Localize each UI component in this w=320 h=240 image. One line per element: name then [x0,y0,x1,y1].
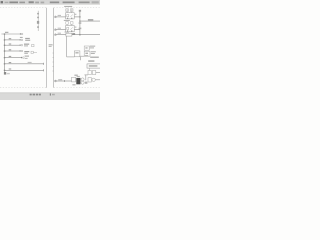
wire D2 right [96,72,100,74]
label C1 [90,46,95,47]
wire code labels above branches [5,32,11,70]
ECU box [87,64,101,68]
label branch 3 [24,44,29,45]
relay K1 label above [64,6,72,7]
wire label K2 [58,28,61,29]
node dot junction bus B [79,34,80,35]
wire branch 5 [5,57,22,59]
connector circle node 2 [54,29,56,31]
connector symbol branch 5 [21,57,24,59]
pin label K1 [75,14,77,15]
wire B2 right stub [80,55,85,57]
motor circle M [92,78,95,81]
wire stub branch 4 [34,51,38,53]
wire power bus [4,34,6,72]
fuse stub wires K1 [66,12,68,13]
label branch 4 [24,51,29,52]
circle G3 [81,78,84,81]
junction dot bus B top wire [79,21,80,22]
window background [0,0,100,100]
pin label K2 [75,27,77,28]
connector pair D1 [88,71,91,75]
connector pair D2 [92,71,95,75]
label above branch 6 [28,62,32,63]
box G1 in cluster [72,77,76,82]
ground label at bus bottom [4,72,6,75]
mark below cluster [72,84,75,85]
pin tick branch 6 [43,63,45,65]
status bar [0,93,100,100]
sheet bottom border (dashed) [54,87,100,89]
label on top right wire [88,19,93,20]
glyph branch 4 [31,51,33,53]
wire branch 7 long [5,69,44,71]
sheet bottom border (dashed) [0,87,47,89]
fuse F3 on wire 3 [56,34,66,36]
label branch 5 [25,56,29,57]
wire F3 to right edge [72,34,100,36]
toolbar menu text smudges [1,1,3,3]
label above cluster [74,75,77,76]
relay K2 label above [64,20,70,21]
top toolbar [0,0,100,5]
component on bus B mid2 [79,28,82,30]
pin tick branch 7 [43,69,45,71]
glyph branch 3 [32,44,34,46]
wire branch 6 long [5,63,44,65]
vertical bus B [79,10,81,35]
sheet right border [46,8,48,88]
fuse stub wires K2 [66,24,68,25]
wire short stub down [80,57,82,60]
wire rail to bottom cluster [56,80,71,82]
wire branch 2 [5,39,20,41]
wire label F3 [58,33,61,34]
connector circle node 3 [54,34,56,36]
small box C2 [84,51,90,56]
labels upper-middle of left sheet [25,38,30,39]
label C2 [91,51,96,52]
connector strip vertical [37,11,39,31]
fuse F1 box [66,9,69,12]
sheet top border (dashed) [54,7,100,9]
label above ECU box [90,57,99,58]
junction dot K1/bus B [79,16,80,17]
wire label K1 [58,15,61,16]
relay K2 fuse boxes [66,22,69,25]
mark above dark module [77,76,80,77]
stub ECU to D1 [89,68,91,70]
connector symbol branch 2 [20,39,23,41]
wire rail to K1 [56,16,65,18]
vertical link E [85,75,87,80]
status bar left mark [50,93,51,95]
component on bus B mid1 [79,22,82,24]
ECU label inside [89,65,98,67]
junction tick on bottom wire [63,80,66,82]
component on bus B top [79,10,81,12]
relay K2 internals [67,27,69,29]
label on bottom wire [58,79,62,80]
wire output top right [80,20,100,22]
connector symbol end of top branch [20,33,23,35]
relay K2 box [66,26,75,32]
sheet left border [53,8,55,88]
wire branch 3 [5,44,20,46]
circle G4 [81,81,84,84]
connector symbol branch 4 [20,50,23,52]
wire K1 to bus B [74,16,80,18]
connector symbol branch 3 [20,44,23,46]
sheet top border (dashed) [0,7,47,9]
cluster mark below [85,82,88,84]
dark module G2 [76,78,80,84]
wire top branch [1,33,20,35]
wire vertical drop from F3 [66,36,68,57]
connector circle node 1 on border [54,16,56,18]
wire branch 4 [5,50,20,52]
box B2 (switch) [74,51,80,57]
wire into D1 [84,74,88,76]
wire horizontal to box B2 [67,56,75,58]
status bar icon dashes [30,94,41,96]
wire rail to K2 [56,29,65,31]
connector circle node 4 [54,80,56,82]
wire M right [95,79,100,81]
relay K1 box [66,13,75,19]
box D3 lower [88,78,91,82]
small box C1 [84,46,89,50]
wire K2 to bus B [74,29,80,31]
relay K1 internals [67,15,69,17]
node junction dots on bus [4,33,5,71]
connector strip blobs [37,13,39,28]
rail reference ticks [52,53,53,71]
fuse F2 box [70,9,73,12]
